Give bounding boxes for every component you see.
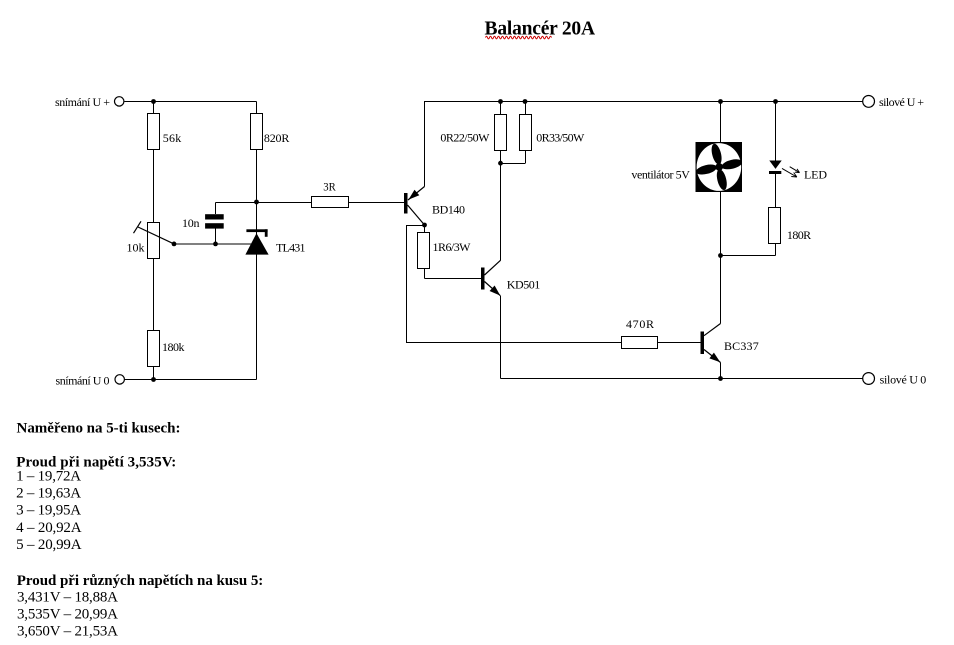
svg-text:180R: 180R	[787, 228, 811, 242]
svg-text:BD140: BD140	[432, 203, 465, 217]
svg-text:Balancér 20A: Balancér 20A	[485, 18, 596, 39]
svg-text:820R: 820R	[264, 131, 290, 145]
svg-text:3R: 3R	[323, 179, 336, 193]
svg-text:0R33/50W: 0R33/50W	[536, 130, 585, 144]
svg-text:3,650V – 21,53A: 3,650V – 21,53A	[17, 623, 118, 639]
svg-text:Naměřeno na 5-ti kusech:: Naměřeno na 5-ti kusech:	[17, 421, 181, 437]
svg-text:1R6/3W: 1R6/3W	[433, 240, 472, 254]
svg-text:3,431V – 18,88A: 3,431V – 18,88A	[17, 589, 118, 605]
svg-text:1 – 19,72A: 1 – 19,72A	[16, 468, 81, 484]
svg-text:silové U 0: silové U 0	[880, 373, 927, 387]
svg-text:Proud při různých napětích na: Proud při různých napětích na kusu 5:	[17, 573, 263, 589]
svg-text:56k: 56k	[163, 131, 182, 145]
svg-text:10k: 10k	[127, 241, 145, 255]
svg-text:LED: LED	[804, 167, 827, 181]
svg-text:KD501: KD501	[507, 278, 541, 292]
svg-text:180k: 180k	[162, 340, 185, 354]
svg-text:3 – 19,95A: 3 – 19,95A	[16, 503, 81, 519]
svg-text:4 – 20,92A: 4 – 20,92A	[16, 520, 82, 536]
svg-text:2 – 19,63A: 2 – 19,63A	[16, 486, 81, 502]
svg-text:10n: 10n	[182, 216, 200, 230]
svg-text:BC337: BC337	[724, 339, 759, 353]
svg-text:470R: 470R	[626, 317, 654, 331]
svg-text:ventilátor 5V: ventilátor 5V	[631, 168, 690, 182]
svg-text:5 – 20,99A: 5 – 20,99A	[16, 537, 82, 553]
svg-text:snímání U +: snímání U +	[55, 95, 110, 109]
svg-text:0R22/50W: 0R22/50W	[440, 130, 490, 144]
svg-text:silové U +: silové U +	[879, 95, 924, 109]
svg-text:3,535V – 20,99A: 3,535V – 20,99A	[17, 606, 118, 622]
svg-text:TL431: TL431	[276, 241, 306, 255]
svg-text:snímání U 0: snímání U 0	[56, 373, 110, 387]
